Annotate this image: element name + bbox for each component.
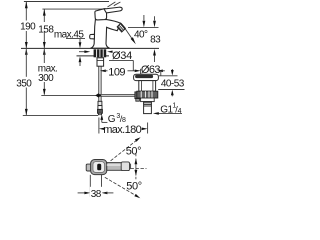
handle detail: left tab [86,164,91,171]
dim 38 [78,175,114,200]
lever raised motion ticks [108,2,116,7]
dim 190 top reference line [24,1,109,3]
svg-text:40-53: 40-53 [161,79,185,90]
spout height reference line [128,27,159,29]
pop-up knob on body left [90,34,95,39]
dim 83 [150,16,161,62]
svg-text:50°: 50° [126,181,141,193]
handle detail: arm [107,162,131,171]
svg-text:38: 38 [91,189,102,200]
lever arm [104,7,122,13]
dim max.180 [99,118,148,137]
40 degree label + leader [124,27,148,44]
countertop bottom line [77,55,110,57]
pop-up rod horizontal [41,94,96,96]
supply pipe [98,66,100,101]
rod nut at waste [135,92,140,99]
dim 190 [20,2,36,55]
label G1 1/4 [153,103,182,116]
svg-text:350: 350 [16,78,32,89]
label max.45 with leader [54,29,85,66]
pipe end fitting G3/8 [98,101,103,114]
aerator [117,23,125,32]
faucet body + spout [91,20,121,49]
waste tailpipe G1 1/4 threads [144,102,152,114]
svg-text:109: 109 [108,66,125,78]
dim 109 and Ø63 shared line [100,64,165,78]
dim 350 bottom reference line [23,114,98,116]
svg-text:max.180: max.180 [103,124,141,136]
waste collar [141,98,155,102]
svg-text:190: 190 [20,22,36,33]
label G3/8 [100,113,126,125]
dim Ø34 [79,50,133,71]
rod-pipe junction [95,93,101,97]
mounting nut below counter (dark, hatched) [94,49,107,57]
svg-text:158: 158 [38,24,54,35]
waste body [139,81,156,92]
svg-text:Ø63: Ø63 [141,64,160,76]
handle detail: swing arrows [135,154,138,181]
countertop top line [21,47,159,49]
waste flange [134,74,159,80]
handle detail: cap [91,160,107,175]
handle detail: upper 50 deg dashed line [111,137,141,161]
arrow at x144 pointing down to spout line [143,15,146,27]
svg-text:40°: 40° [134,29,148,40]
dim 158 [38,9,54,55]
handle detail: dashed centerline [131,167,147,169]
dim 40-53 [158,69,185,96]
dim max.300 [38,49,57,95]
lever cap [95,9,107,20]
waste nut [137,91,158,98]
svg-text:50°: 50° [126,146,141,158]
handle detail: lower 50 deg dashed line [105,177,141,198]
svg-text:83: 83 [150,34,161,45]
connection block [97,58,104,66]
svg-text:8: 8 [122,117,126,124]
dim 158 top reference line [42,8,107,10]
svg-text:300: 300 [38,73,54,84]
dim 350 [16,49,32,115]
